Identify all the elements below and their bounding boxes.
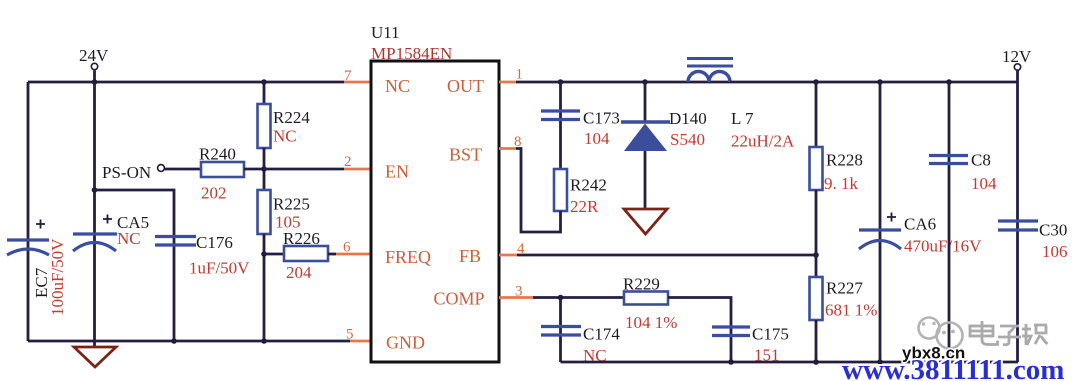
svg-text:R225: R225 xyxy=(273,195,310,214)
svg-text:www.3811111.com: www.3811111.com xyxy=(842,354,1064,381)
svg-text:106: 106 xyxy=(1042,242,1068,261)
resistor R225 xyxy=(258,190,271,234)
junction dot R225 column bottom xyxy=(261,338,267,344)
junction dot FB at R228/R227 xyxy=(813,252,819,258)
capacitor C30 xyxy=(998,221,1038,230)
node 12V terminal xyxy=(1014,64,1020,70)
node 24V terminal xyxy=(91,63,97,69)
capacitor C8 xyxy=(929,156,968,164)
svg-text:22R: 22R xyxy=(570,197,599,216)
watermark logo icon xyxy=(919,318,963,349)
svg-text:24V: 24V xyxy=(79,46,109,65)
junction dot CA5 tap xyxy=(92,187,98,193)
svg-text:FREQ: FREQ xyxy=(385,247,431,267)
svg-text:R227: R227 xyxy=(826,279,863,298)
wire FREQ row to R226 xyxy=(264,253,284,256)
svg-text:104: 104 xyxy=(584,129,610,148)
watermark char zi xyxy=(998,326,1021,345)
resistor R229 xyxy=(624,292,668,305)
resistor R227 xyxy=(810,277,823,320)
svg-text:204: 204 xyxy=(286,263,312,282)
svg-text:470uF/16V: 470uF/16V xyxy=(904,237,982,256)
node PS-ON terminal xyxy=(158,165,165,172)
wire left vertical (through EC7) xyxy=(27,82,30,341)
svg-text:8: 8 xyxy=(514,134,522,150)
junction dot C174 top xyxy=(558,295,564,301)
svg-text:22uH/2A: 22uH/2A xyxy=(731,132,795,151)
svg-text:681 1%: 681 1% xyxy=(825,301,877,320)
junction dot D140 top xyxy=(642,79,648,85)
junction dot top rail R224 xyxy=(261,79,267,85)
wire R224 bottom to R225 top xyxy=(263,148,266,190)
wire top rail left (24V to pin7) xyxy=(28,81,344,84)
svg-text:PS-ON: PS-ON xyxy=(102,163,151,182)
wire R226 to pin6 xyxy=(328,253,336,256)
junction dot EN row xyxy=(261,166,267,172)
junction dot C8 top xyxy=(946,79,952,85)
svg-text:OUT: OUT xyxy=(447,76,484,96)
wire COMP row xyxy=(533,296,624,299)
svg-text:100uF/50V: 100uF/50V xyxy=(48,238,67,316)
svg-text:C8: C8 xyxy=(971,151,991,170)
svg-text:1: 1 xyxy=(516,67,524,83)
svg-text:L 7: L 7 xyxy=(731,109,754,128)
svg-text:C175: C175 xyxy=(752,325,789,344)
svg-text:C174: C174 xyxy=(583,325,620,344)
svg-text:R229: R229 xyxy=(623,275,660,294)
wire D140 anode lead xyxy=(644,151,647,209)
svg-text:R228: R228 xyxy=(826,151,863,170)
svg-text:R226: R226 xyxy=(283,229,320,248)
pin 5 stub xyxy=(350,340,371,343)
pin 8 stub xyxy=(499,147,516,150)
svg-text:7: 7 xyxy=(344,68,352,84)
svg-text:1uF/50V: 1uF/50V xyxy=(189,259,250,278)
svg-text:2: 2 xyxy=(344,154,352,170)
wire bottom right rail xyxy=(561,361,1019,364)
svg-text:5: 5 xyxy=(346,327,354,343)
wire bottom rail left (to pin5) xyxy=(28,340,350,343)
inductor L7 xyxy=(687,59,733,83)
svg-text:EN: EN xyxy=(385,162,409,182)
junction dot C175 bottom xyxy=(728,359,734,365)
resistor R240 xyxy=(201,162,244,177)
watermark char dian xyxy=(970,321,998,345)
pin 4 stub xyxy=(499,254,517,257)
svg-text:C176: C176 xyxy=(196,233,233,252)
svg-text:12V: 12V xyxy=(1002,47,1032,66)
svg-text:C30: C30 xyxy=(1039,221,1067,240)
svg-text:NC: NC xyxy=(385,76,410,96)
capacitor C174 xyxy=(541,327,581,336)
pin 1 stub xyxy=(499,81,516,84)
wire R227 bottom lead xyxy=(815,320,818,362)
capacitor C173 xyxy=(541,111,580,120)
svg-text:104 1%: 104 1% xyxy=(625,313,677,332)
wire R225 bottom to bottom rail xyxy=(263,234,266,341)
capacitor CA6 xyxy=(859,213,901,250)
ground (left) xyxy=(74,347,116,367)
resistor R226 xyxy=(284,246,328,261)
wire C173 lead xyxy=(559,82,562,169)
resistor R242 xyxy=(554,169,567,211)
ground (D140) xyxy=(624,209,667,234)
resistor R228 xyxy=(810,147,823,190)
svg-text:FB: FB xyxy=(459,246,481,266)
wire 12V column (through C30) xyxy=(1016,70,1019,362)
wire OUT rail to inductor xyxy=(516,81,730,84)
pin 2 stub xyxy=(344,168,371,171)
wire PS-ON to R240 xyxy=(165,168,202,171)
svg-text:COMP: COMP xyxy=(433,289,484,309)
svg-text:NC: NC xyxy=(117,229,141,248)
svg-text:R224: R224 xyxy=(273,108,310,127)
wire CA6 lead xyxy=(879,82,882,362)
wire BST loop xyxy=(516,149,561,233)
svg-text:202: 202 xyxy=(201,184,227,203)
svg-text:BST: BST xyxy=(449,145,482,165)
svg-text:MP1584EN: MP1584EN xyxy=(371,44,452,63)
svg-text:CA6: CA6 xyxy=(904,215,936,234)
wire FB rail xyxy=(517,254,816,257)
junction dot C8 bottom xyxy=(946,359,952,365)
junction dot R228 top xyxy=(813,79,819,85)
junction dot CA6 top xyxy=(877,79,883,85)
svg-text:104: 104 xyxy=(971,174,997,193)
capacitor EC7 xyxy=(7,220,49,256)
capacitor C176 xyxy=(155,237,196,246)
resistor R224 xyxy=(258,104,271,148)
wire R228 top lead xyxy=(815,82,818,147)
op-amp U11 body xyxy=(371,61,499,362)
svg-text:C173: C173 xyxy=(583,109,620,128)
junction dot C173 top xyxy=(558,79,564,85)
wire OUT rail right of inductor xyxy=(730,81,1018,84)
wire 24V stub xyxy=(93,71,96,83)
svg-text:S540: S540 xyxy=(670,130,705,149)
svg-text:R240: R240 xyxy=(199,145,236,164)
svg-text:6: 6 xyxy=(343,240,351,256)
capacitor C175 xyxy=(712,327,750,336)
svg-text:R242: R242 xyxy=(570,176,607,195)
wire CA5 vertical (through CA5) xyxy=(93,82,96,347)
junction dot CA6 bottom xyxy=(877,359,883,365)
junction dot R227 bottom xyxy=(813,359,819,365)
wire tap to C176 xyxy=(95,190,175,341)
watermark char bao xyxy=(1022,324,1048,345)
pin 6 stub xyxy=(336,253,371,256)
svg-text:GND: GND xyxy=(386,333,425,353)
junction dot FREQ row xyxy=(261,251,267,257)
diode D140 xyxy=(621,122,670,151)
svg-text:U11: U11 xyxy=(371,23,400,42)
wire R229 to C175 xyxy=(668,298,731,363)
wire C174 lead xyxy=(559,298,562,363)
svg-text:NC: NC xyxy=(273,127,297,146)
wire R240 to node xyxy=(244,168,264,171)
capacitor CA5 xyxy=(73,215,117,252)
wire C8 lead xyxy=(948,82,951,362)
svg-text:D140: D140 xyxy=(669,109,707,128)
wire D140 cathode lead xyxy=(644,82,647,122)
svg-text:9. 1k: 9. 1k xyxy=(824,174,859,193)
junction dot C176 bottom xyxy=(171,338,177,344)
svg-text:3: 3 xyxy=(515,284,523,300)
wire R228 to R227 xyxy=(815,190,818,277)
pin 7 stub xyxy=(344,81,371,84)
junction dot 24V xyxy=(92,79,98,85)
pin 3 stub xyxy=(499,296,533,299)
wire EN row to pin2 xyxy=(264,168,344,171)
wire R224 top xyxy=(263,82,266,104)
